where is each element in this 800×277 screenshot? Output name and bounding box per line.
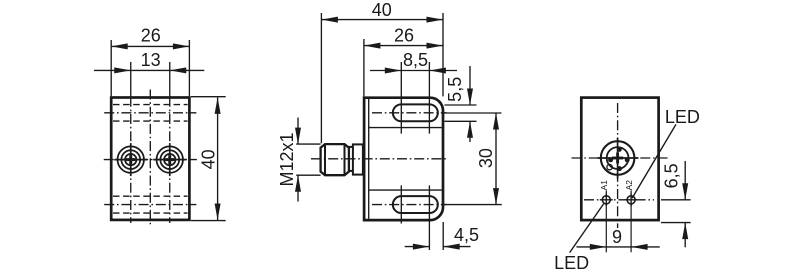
svg-text:40: 40 [372, 0, 392, 20]
svg-text:4,5: 4,5 [454, 225, 479, 245]
svg-text:13: 13 [141, 50, 161, 70]
svg-text:30: 30 [476, 148, 496, 168]
svg-text:5,5: 5,5 [445, 77, 465, 102]
svg-text:26: 26 [394, 25, 414, 45]
svg-text:40: 40 [198, 149, 218, 169]
svg-text:6,5: 6,5 [662, 163, 682, 188]
svg-text:8,5: 8,5 [403, 50, 428, 70]
svg-text:LED: LED [554, 253, 589, 273]
svg-text:A1: A1 [599, 180, 609, 191]
svg-text:26: 26 [141, 25, 161, 45]
svg-text:M12x1: M12x1 [277, 132, 297, 186]
svg-text:9: 9 [612, 227, 622, 247]
svg-text:A2: A2 [624, 180, 634, 191]
svg-text:LED: LED [665, 107, 700, 127]
